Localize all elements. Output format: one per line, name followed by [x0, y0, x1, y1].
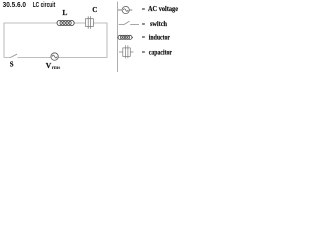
svg-text:L: L — [62, 8, 67, 17]
svg-text:AC voltage: AC voltage — [148, 6, 178, 13]
legend separator line — [117, 2, 119, 73]
svg-text:capacitor: capacitor — [149, 49, 172, 56]
AC source Vrms circle — [51, 53, 58, 60]
svg-text:LC circuit: LC circuit — [33, 2, 56, 9]
svg-text:=: = — [142, 35, 146, 41]
capacitor C box — [86, 19, 94, 27]
svg-text:=: = — [142, 7, 146, 13]
svg-text:=: = — [142, 50, 146, 56]
legend capacitor symbol — [119, 45, 134, 58]
svg-text:inductor: inductor — [149, 34, 170, 41]
wire loop (top/left/right/bottom) — [4, 23, 107, 57]
svg-text:30.5.6.0: 30.5.6.0 — [3, 2, 26, 9]
legend switch symbol — [119, 21, 139, 24]
switch S lever — [10, 54, 17, 58]
svg-text:C: C — [92, 6, 97, 14]
inductor L coil — [57, 20, 74, 25]
svg-text:switch: switch — [150, 21, 167, 28]
svg-text:rms: rms — [52, 65, 61, 71]
svg-text:=: = — [142, 22, 146, 28]
capacitor C plates — [87, 16, 89, 29]
AC source sine — [52, 55, 57, 58]
legend AC voltage symbol — [118, 6, 132, 13]
legend inductor symbol — [118, 35, 134, 39]
svg-text:S: S — [10, 62, 14, 69]
